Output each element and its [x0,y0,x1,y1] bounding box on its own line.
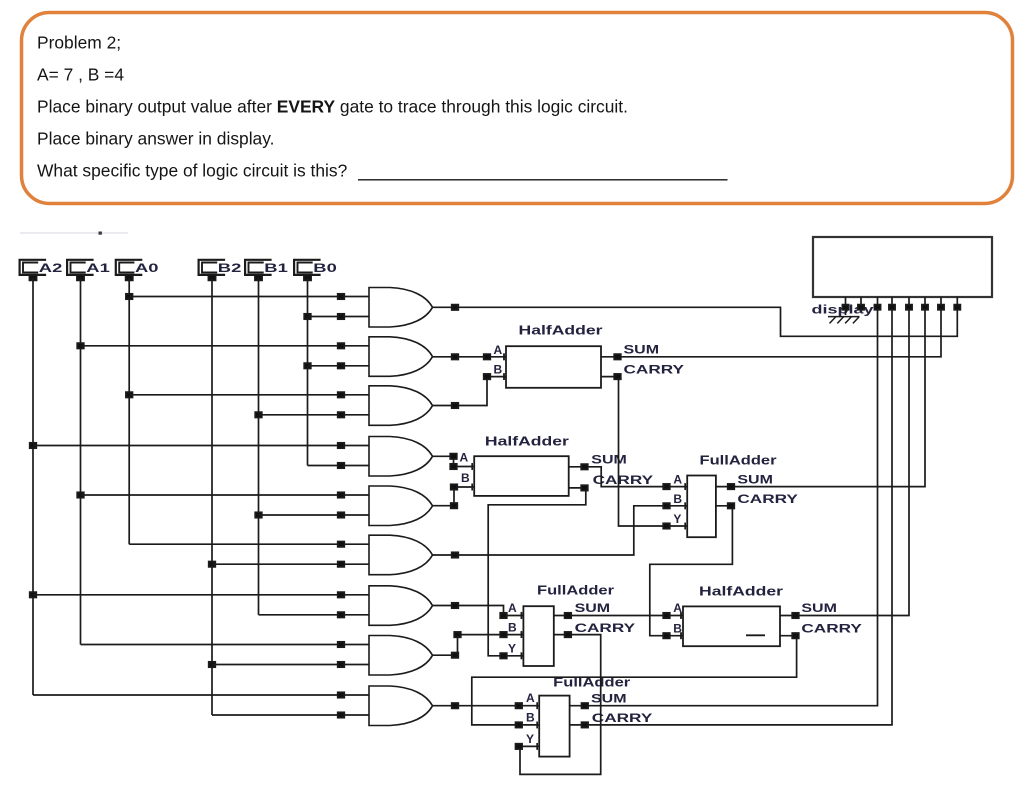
input pin B1 [245,260,288,281]
wire: U1 SUM to display pin 7 (P1) [601,310,941,360]
svg-text:B1: B1 [264,261,288,275]
wire: U1 CARRY to U3 pin Y [601,374,687,530]
svg-text:SUM: SUM [575,601,611,615]
wire: G2 output to U1 pin A [433,353,507,360]
wire: G1 output to display pin 8 (P0) [433,305,958,337]
wire: vertical net rail B1 [255,278,262,615]
AND gate G9 with input wires [33,686,433,726]
input pin A1 [67,260,110,281]
svg-text:Place binary output value afte: Place binary output value after EVERY ga… [37,97,628,117]
AND gate G6 with input wires [129,535,432,575]
half adder U2: HalfAdder block [460,434,654,496]
half adder U5: HalfAdder block [673,583,862,646]
wire: G3 output to U1 pin B [433,373,507,408]
AND gate G5 with input wires [81,486,433,526]
svg-text:FullAdder: FullAdder [700,452,777,467]
svg-text:CARRY: CARRY [801,622,862,636]
svg-text:Y: Y [526,732,534,746]
wire: U2 CARRY to U4 pin Y [488,485,588,659]
half adder U1: HalfAdder block [494,323,685,388]
svg-text:Y: Y [508,641,516,655]
AND gate G4 with input wires [33,437,433,477]
display pin 7 [938,297,944,310]
svg-text:B0: B0 [313,261,337,275]
svg-text:A0: A0 [135,261,159,275]
display pin 1 [842,297,848,315]
svg-text:A1: A1 [86,261,110,275]
svg-text:A: A [673,472,682,486]
svg-text:CARRY: CARRY [737,492,798,506]
svg-text:SUM: SUM [801,601,837,615]
wire: vertical net rail B0 [304,278,311,466]
full adder U3: FullAdder block [673,452,798,537]
full adder U6: FullAdder block [526,674,652,756]
wire: U4 CARRY to U6 pin Y [516,632,601,775]
ground symbol at display pin 1 [828,317,860,324]
svg-text:A2: A2 [39,261,63,275]
wire: G9 output to U6 pin A [433,702,540,709]
svg-text:What specific type of logic ci: What specific type of logic circuit is t… [37,161,348,181]
wire: U6 CARRY to display pin 4 (P5) [570,310,892,728]
wire: G8 output to U4 pin B [433,631,524,658]
svg-text:SUM: SUM [591,453,627,467]
svg-text:B: B [461,471,470,485]
display pin 8 [954,297,960,310]
wire: U2 SUM to U3 pin A [569,464,688,490]
wire: G5 output to U2 pin B [433,484,475,509]
svg-text:B: B [526,710,535,724]
svg-text:HalfAdder: HalfAdder [519,323,603,338]
svg-text:B: B [494,363,503,377]
input pin A2 [20,260,63,281]
problem statement rounded box [22,13,1013,204]
svg-text:B: B [508,620,517,634]
wire: G6 output to U3 pin B [433,502,688,557]
faint scan artifact [20,232,128,234]
svg-text:FullAdder: FullAdder [537,582,614,597]
svg-text:B: B [673,492,682,506]
wire: U4 SUM to U5 pin A [554,612,683,619]
display pin 2 [858,297,864,310]
display pin 6 [922,297,928,310]
wire: vertical net rail A2 [30,278,37,695]
svg-text:A: A [460,450,469,464]
svg-text:CARRY: CARRY [624,363,685,377]
wire: U3 SUM to display pin 6 (P2) [716,310,925,490]
svg-text:Y: Y [673,512,681,526]
wire: U5 SUM to display pin 5 (P3) [780,310,909,618]
wire: U6 SUM to display pin 3 (P4) [570,310,878,709]
AND gate G1 with input wires [129,288,432,328]
svg-text:SUM: SUM [624,343,660,357]
svg-text:SUM: SUM [591,692,627,706]
display pin 5 [906,297,912,310]
svg-text:A= 7 , B =4: A= 7 , B =4 [37,65,124,85]
input pin B2 [199,260,242,281]
svg-text:B2: B2 [218,261,242,275]
display DISP1 box [812,237,993,316]
svg-text:A: A [508,601,517,615]
svg-text:A: A [494,343,503,357]
svg-text:HalfAdder: HalfAdder [485,434,569,449]
svg-text:A: A [526,691,535,705]
wire: vertical net rail A1 [77,278,84,645]
input pin A0 [116,260,159,281]
AND gate G8 with input wires [81,636,433,676]
wire: vertical net rail B2 [209,278,216,715]
display pin 4 [889,297,895,310]
svg-text:Problem 2;: Problem 2; [37,33,121,53]
AND gate G7 with input wires [33,586,433,626]
svg-text:Place binary answer in display: Place binary answer in display. [37,129,274,149]
AND gate G3 with input wires [129,386,432,426]
wire: G7 output to U4 pin A [433,603,524,619]
wire: U5 CARRY to U6 pin B [472,633,799,728]
input pin B0 [294,260,337,281]
AND gate G2 with input wires [81,337,433,377]
svg-text:SUM: SUM [737,472,773,486]
svg-text:HalfAdder: HalfAdder [699,583,783,598]
display pin 3 [874,297,880,310]
wire: G4 output to U2 pin A [433,454,475,470]
full adder U4: FullAdder block [508,582,635,666]
wire: U3 CARRY to U5 pin B [650,503,735,639]
svg-text:CARRY: CARRY [575,621,636,635]
wire: vertical net rail A0 [126,278,133,545]
